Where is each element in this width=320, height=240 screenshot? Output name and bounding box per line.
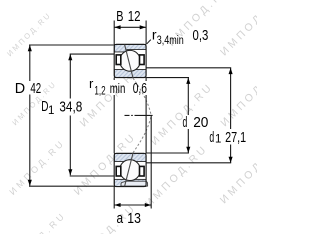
svg-text:13: 13 (127, 211, 141, 227)
D dimension line (29, 45, 31, 186)
d top extension (146, 77, 189, 79)
D top extension (29, 44, 114, 46)
B dimension line (114, 26, 146, 28)
left face extension to a-dim (113, 187, 115, 209)
a right extension line (150, 116, 152, 209)
d bottom extension (146, 152, 189, 154)
svg-text:34,8: 34,8 (59, 99, 82, 115)
svg-text:d: d (183, 115, 188, 131)
D bottom extension (29, 185, 114, 187)
svg-text:1,2: 1,2 (94, 86, 105, 98)
svg-text:ИМПОД.RU: ИМПОД.RU (218, 139, 257, 206)
r3,4 leader (147, 40, 151, 44)
d dimension line (187, 78, 189, 153)
d1 arrow down (229, 157, 233, 163)
svg-text:42: 42 (30, 81, 41, 97)
svg-text:3,4min: 3,4min (157, 35, 184, 47)
svg-text:1: 1 (215, 134, 221, 146)
bottom section outline (114, 153, 146, 186)
d1 arrow up (229, 68, 233, 74)
contact line (bottom, solid through ball) (125, 153, 134, 187)
D1 arrow down (68, 169, 72, 175)
d arrow up (186, 78, 190, 84)
d arrow down (186, 147, 190, 153)
svg-text:d: d (209, 130, 214, 146)
right face line (145, 78, 147, 154)
svg-text:0,3: 0,3 (193, 28, 209, 44)
bearing outer ring section (top) (114, 44, 146, 77)
cage segment left (top) (116, 55, 121, 65)
top section outline (114, 44, 146, 77)
D1 top extension (70, 53, 115, 55)
D arrow down (28, 180, 32, 186)
centerline axis (125, 114, 153, 116)
svg-text:12: 12 (128, 9, 141, 25)
left face line (113, 78, 115, 154)
d1 top extension (146, 67, 231, 69)
svg-text:ИМПОД.RU: ИМПОД.RU (218, 0, 257, 58)
contact line extension (top, dashed to axis) (133, 78, 151, 115)
svg-text:1: 1 (48, 105, 54, 117)
cage segment left (bottom) (116, 166, 121, 176)
a dimension line (114, 204, 151, 206)
D1 dimension line (69, 54, 71, 175)
svg-text:ИМПОД.RU: ИМПОД.RU (149, 80, 216, 147)
svg-text:r: r (89, 76, 94, 91)
svg-text:ИМПОД.RU: ИМПОД.RU (143, 142, 210, 209)
contact line extension (bottom, dashed to axis) (133, 116, 151, 153)
svg-text:ИМПОД.RU: ИМПОД.RU (8, 210, 68, 234)
svg-text:a: a (117, 211, 124, 227)
d1 bottom extension (146, 162, 231, 164)
cage segment right (top) (140, 55, 145, 65)
svg-text:min: min (110, 81, 126, 96)
svg-text:ИМПОД.RU: ИМПОД.RU (7, 137, 67, 197)
contact line (top, solid through ball) (125, 45, 134, 79)
D1 arrow up (68, 54, 72, 60)
B dimension extension lines (113, 21, 115, 45)
svg-text:D: D (15, 81, 25, 97)
svg-text:27,1: 27,1 (225, 130, 246, 146)
d1 dimension line (230, 68, 232, 163)
D arrow up (28, 45, 32, 51)
ball (top section) (120, 50, 141, 71)
ball (bottom section) (120, 160, 141, 181)
B arrow right (140, 25, 146, 29)
svg-text:ИМПОД.RU: ИМПОД.RU (218, 62, 257, 129)
bearing inner ring section (bottom) (114, 153, 147, 186)
D1 bottom extension (70, 175, 115, 177)
cage segment right (bottom) (140, 166, 145, 176)
a arrow left (114, 203, 120, 207)
svg-text:0,6: 0,6 (133, 81, 147, 97)
svg-text:B: B (116, 9, 123, 25)
a arrow right (145, 203, 151, 207)
svg-text:20: 20 (193, 115, 208, 131)
B arrow left (114, 25, 120, 29)
